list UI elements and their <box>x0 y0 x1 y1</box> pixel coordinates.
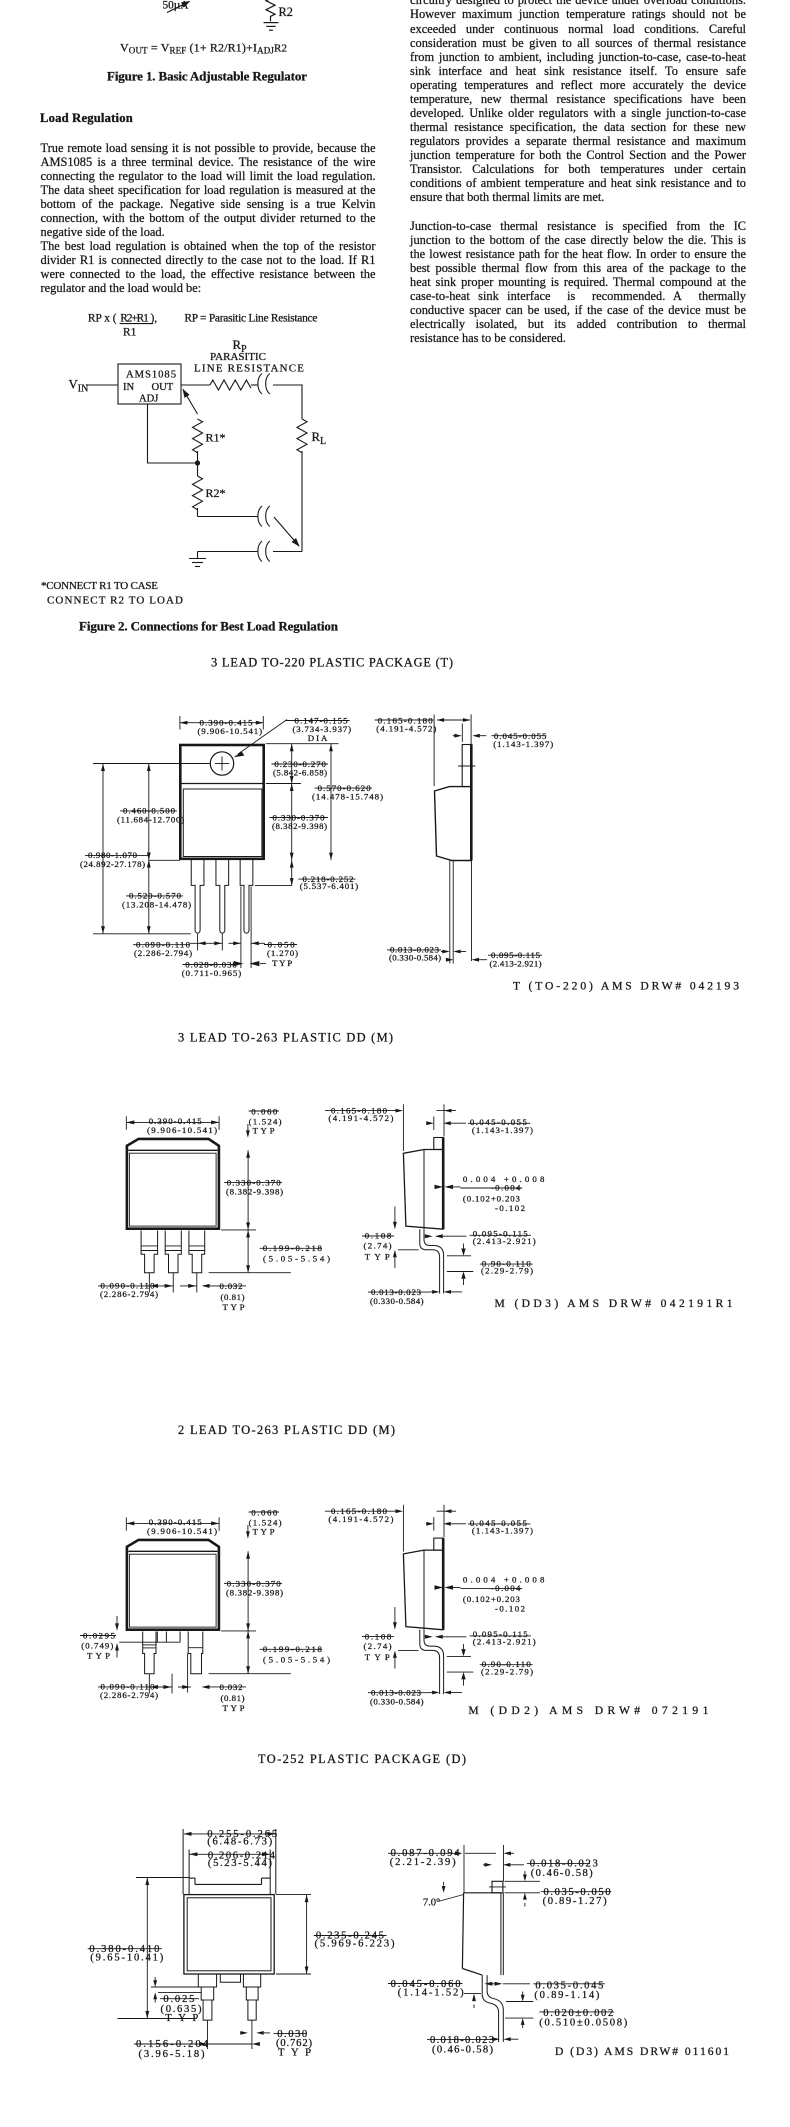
lead 1 <box>143 1632 156 1674</box>
dim lead position 0.095-0.115 <box>446 958 454 962</box>
wire break <box>258 374 262 395</box>
svg-text:M (DD3) AMS DRW# 042191R1: M (DD3) AMS DRW# 042191R1 <box>495 1297 733 1310</box>
package front view <box>98 1106 330 1312</box>
wire diagonal to load return <box>274 517 299 546</box>
resistor RL <box>297 419 307 453</box>
wire ground run <box>198 551 259 553</box>
body side outline <box>462 1893 463 1969</box>
package side view <box>325 1505 545 1707</box>
svg-text:R1: R1 <box>123 327 137 339</box>
inner body outline <box>183 789 262 857</box>
package front view <box>98 1507 330 1713</box>
svg-text:(0.330-0.584): (0.330-0.584) <box>389 953 441 963</box>
svg-text:R2+R1: R2+R1 <box>120 312 149 324</box>
wire node A to R2 <box>197 463 199 476</box>
ground <box>197 552 199 559</box>
wire down to RL <box>301 384 303 419</box>
svg-text:),: ), <box>151 312 158 324</box>
lead 2 <box>216 860 229 933</box>
wire OUT to Rp <box>181 384 210 386</box>
dim body 0.235-0.245 <box>276 1894 311 1896</box>
lead gull-wing <box>482 1975 498 2042</box>
wire ADJ down and right <box>148 404 198 463</box>
svg-text:(14.478-15.748): (14.478-15.748) <box>312 792 383 802</box>
svg-text:Figure 2. Connections for Best: Figure 2. Connections for Best Load Regu… <box>79 619 339 634</box>
tab side <box>462 745 472 787</box>
dim lead thickness 0.028-0.038 <box>234 961 244 966</box>
svg-text:RP x (: RP x ( <box>88 312 117 324</box>
resistor Rp parasitic <box>210 380 251 390</box>
wire RL down <box>301 451 303 552</box>
svg-text:VIN: VIN <box>69 377 89 394</box>
dim body height 0.330-0.370 <box>291 784 293 861</box>
lead 2 <box>243 1974 260 2020</box>
svg-text:(13.208-14.478): (13.208-14.478) <box>122 899 191 909</box>
body side outline <box>435 787 472 861</box>
svg-text:ADJ: ADJ <box>139 394 158 405</box>
dim overall height 0.980-1.070 <box>102 764 104 934</box>
tab divider line <box>181 783 264 785</box>
lead width arrow <box>202 1685 210 1689</box>
wire R2 bottom run <box>198 516 259 518</box>
node A junction dot <box>195 460 200 465</box>
svg-text:TYP: TYP <box>272 958 292 968</box>
svg-text:Figure 1. Basic Adjustable Reg: Figure 1. Basic Adjustable Regulator <box>107 69 307 84</box>
svg-text:*CONNECT R1 TO CASE: *CONNECT R1 TO CASE <box>41 580 158 592</box>
hole centre extension line <box>93 763 210 765</box>
op-amp U1 AMS1085 regulator box <box>118 364 181 404</box>
dim hole dia 0.147-0.155 <box>286 720 350 722</box>
svg-text:7.0°: 7.0° <box>423 1898 440 1909</box>
dim lead width 0.030 TYP <box>240 2032 241 2034</box>
dim depth 0.087-0.094 <box>388 1852 455 1854</box>
svg-text:(0.510±0.0508): (0.510±0.0508) <box>539 2018 627 2029</box>
dim height 0.380-0.410 <box>136 1877 189 1879</box>
svg-text:LINE RESISTANCE: LINE RESISTANCE <box>194 363 304 375</box>
centre stub lead <box>220 1974 240 1982</box>
svg-text:CONNECT R2 TO LOAD: CONNECT R2 TO LOAD <box>47 595 183 607</box>
svg-text:RL: RL <box>312 430 327 447</box>
dim lead width 0.035-0.045 <box>484 1982 492 1986</box>
dim body depth 0.165-0.180 <box>433 715 435 787</box>
back extension <box>471 861 473 962</box>
tab notch outline <box>189 1877 195 1879</box>
svg-text:3 LEAD TO-220 PLASTIC PACKAGE: 3 LEAD TO-220 PLASTIC PACKAGE (T) <box>211 656 453 670</box>
centre stub lead <box>156 1632 158 1643</box>
svg-text:(0.711-0.965): (0.711-0.965) <box>182 968 242 978</box>
dim lead width 0.050 TYP <box>229 942 241 944</box>
body back edge thick <box>470 745 473 861</box>
svg-text:TYP: TYP <box>87 1650 110 1660</box>
svg-text:(24.892-27.178): (24.892-27.178) <box>80 859 145 869</box>
svg-text:(0.89-1.14): (0.89-1.14) <box>534 1990 599 2001</box>
svg-text:(2.21-2.39): (2.21-2.39) <box>390 1857 456 1868</box>
dim lead tip 0.018-0.023 <box>490 2038 492 2040</box>
svg-text:R1*: R1* <box>206 431 226 445</box>
front face extension <box>463 1845 465 1893</box>
svg-text:(5.23-5.44): (5.23-5.44) <box>208 1858 272 1869</box>
svg-text:2 LEAD TO-263 PLASTIC DD (M): 2 LEAD TO-263 PLASTIC DD (M) <box>178 1423 395 1437</box>
mounting hole <box>210 752 233 775</box>
lead side <box>449 861 451 964</box>
svg-text:D (D3) AMS DRW# 011601: D (D3) AMS DRW# 011601 <box>555 2045 729 2058</box>
svg-text:TO-252 PLASTIC PACKAGE (D): TO-252 PLASTIC PACKAGE (D) <box>258 1752 466 1766</box>
wire break <box>258 506 262 527</box>
svg-text:(9.906-10.541): (9.906-10.541) <box>198 726 263 736</box>
lead 1 <box>191 860 204 933</box>
lead width arrow <box>202 1284 210 1288</box>
svg-text:IN: IN <box>123 382 135 393</box>
svg-text:R2: R2 <box>279 5 293 19</box>
svg-text:OUT: OUT <box>152 382 174 393</box>
lead 3 width extension lines <box>240 887 242 969</box>
dim tab thickness 0.018-0.023 top <box>483 1864 485 1866</box>
package body front <box>184 1895 274 1974</box>
pitch arrows <box>150 1685 158 1689</box>
svg-text:(6.48-6.73): (6.48-6.73) <box>207 1837 272 1848</box>
bottom extension lines <box>93 933 191 935</box>
wire break to RL bottom <box>273 551 302 553</box>
package body front view <box>180 745 263 859</box>
dim tab thickness 0.045-0.055 <box>461 724 463 743</box>
dim body 0.460-0.500 <box>148 764 150 861</box>
svg-text:T (TO-220) AMS DRW# 042193: T (TO-220) AMS DRW# 042193 <box>513 980 739 993</box>
current-source arrow <box>167 2 190 13</box>
wire R2 down <box>197 508 199 517</box>
arrow from R1 to OUT case point <box>183 390 198 415</box>
resistor R2* <box>193 476 203 510</box>
dim overall 0.570-0.620 <box>330 744 332 860</box>
dim lead length 0.520-0.570 <box>149 859 180 861</box>
body back faces <box>500 1893 502 1975</box>
svg-text:(5.969-6.223): (5.969-6.223) <box>315 1939 395 1950</box>
dim lead pitch 0.090-0.110 <box>190 942 222 944</box>
svg-text:(2.286-2.794): (2.286-2.794) <box>134 948 192 958</box>
svg-text:PARASITIC: PARASITIC <box>210 351 266 363</box>
wire R1 to node A <box>197 451 199 463</box>
tab side <box>492 1881 503 1893</box>
lead 1 <box>141 1231 158 1273</box>
dim lead thickness 0.020 <box>506 2001 533 2003</box>
svg-text:3 LEAD TO-263 PLASTIC DD (M): 3 LEAD TO-263 PLASTIC DD (M) <box>178 1030 393 1044</box>
svg-text:(0.89-1.27): (0.89-1.27) <box>543 1896 607 1907</box>
svg-text:RP = Parasitic Line Resistance: RP = Parasitic Line Resistance <box>184 312 317 324</box>
left column paragraph 1 <box>41 141 376 296</box>
svg-text:(0.46-0.58): (0.46-0.58) <box>531 1868 593 1879</box>
dim step 0.025 TYP <box>151 1986 198 1988</box>
dim lead thickness 0.013-0.023 <box>441 951 443 953</box>
svg-text:M (DD2) AMS DRW# 072191: M (DD2) AMS DRW# 072191 <box>468 1704 708 1717</box>
dim lead shoulder 0.218-0.252 <box>255 885 292 887</box>
resistor R1* <box>193 419 203 453</box>
dim tab height 0.230-0.270 <box>266 743 339 745</box>
svg-text:VOUT = VREF (1+ R2/R1)+IADJR2: VOUT = VREF (1+ R2/R1)+IADJR2 <box>120 41 287 56</box>
svg-text:R2*: R2* <box>206 486 226 500</box>
svg-text:(1.14-1.52): (1.14-1.52) <box>398 1988 464 1999</box>
svg-text:AMS1085: AMS1085 <box>126 370 176 381</box>
lead 1 <box>198 1974 216 2020</box>
dim width 0.390-0.415 <box>179 716 181 730</box>
lead 2 <box>165 1231 181 1273</box>
svg-text:(11.684-12.700): (11.684-12.700) <box>117 814 184 824</box>
dim 0.0295 TYP <box>116 1616 118 1624</box>
svg-text:(5.842-6.858): (5.842-6.858) <box>273 768 327 778</box>
wire VIN to regulator <box>86 384 118 386</box>
lead 3 <box>240 860 253 933</box>
svg-text:TYP: TYP <box>165 2013 198 2024</box>
lead 2 edge extension <box>187 1654 189 1693</box>
svg-text:(0.46-0.58): (0.46-0.58) <box>432 2045 493 2056</box>
dim tab height 0.035-0.050 <box>505 1880 541 1882</box>
svg-text:(8.382-9.398): (8.382-9.398) <box>272 821 327 831</box>
svg-text:(1.270): (1.270) <box>267 948 298 958</box>
svg-text:(5.537-6.401): (5.537-6.401) <box>300 881 359 891</box>
wire break to corner <box>273 384 302 386</box>
lead 3 <box>189 1231 205 1273</box>
right column paragraph 1 (first line cut at page top) <box>410 0 746 345</box>
wire break <box>258 541 262 562</box>
dim pad width 0.206-0.214 <box>190 1853 271 1855</box>
tab outer extension sides <box>182 1829 184 1894</box>
pitch arrows <box>150 1284 158 1288</box>
package side view <box>325 1104 545 1306</box>
svg-text:(2.413-2.921): (2.413-2.921) <box>490 959 542 969</box>
dim pitch 0.156-0.204 <box>207 2020 209 2049</box>
left column heading <box>40 111 133 126</box>
tab inner extension sides <box>188 1850 190 1895</box>
svg-text:50µA: 50µA <box>163 0 190 12</box>
dim tab width 0.255-0.265 <box>184 1833 276 1835</box>
lead 2 <box>188 1632 203 1674</box>
svg-text:(1.143-1.397): (1.143-1.397) <box>493 739 553 749</box>
resistor R2 <box>266 0 275 21</box>
ground <box>264 22 279 24</box>
svg-text:(4.191-4.572): (4.191-4.572) <box>376 723 436 733</box>
svg-text:TYP: TYP <box>278 2047 311 2058</box>
svg-text:(3.96-5.18): (3.96-5.18) <box>139 2049 205 2060</box>
svg-text:(0.749): (0.749) <box>81 1640 113 1650</box>
wire Rp to break <box>251 384 259 386</box>
pitch extension lines <box>148 1273 150 1293</box>
back face extension <box>503 1845 505 1881</box>
pitch extension lines <box>148 1674 150 1694</box>
svg-text:DIA: DIA <box>308 733 328 743</box>
